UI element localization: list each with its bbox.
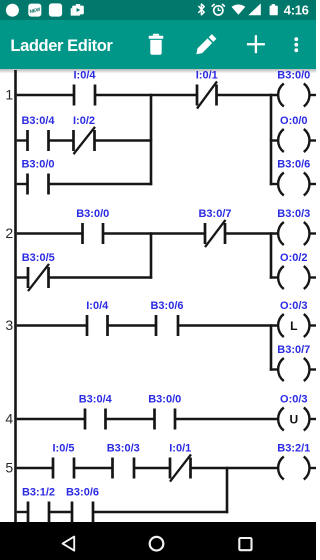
- svg-text:I:0/1: I:0/1: [169, 443, 191, 455]
- svg-text:5: 5: [5, 459, 13, 475]
- wire rung1 coil O:0/0 left lead: [270, 139, 278, 141]
- svg-text:B3:0/0: B3:0/0: [277, 70, 310, 82]
- left power rail: [14, 70, 17, 522]
- wire rung5: I:0/5 to B3:0/3: [74, 467, 113, 469]
- svg-text:B3:2/1: B3:2/1: [277, 443, 310, 455]
- contact B3:0/4 rung1 branch1: [21, 115, 55, 151]
- svg-text:B3:0/7: B3:0/7: [198, 208, 231, 220]
- contact B3:1/2 rung5 branch: [22, 487, 55, 523]
- app bar background: [0, 20, 316, 69]
- wire rung4: coil to right edge: [310, 418, 316, 420]
- wire rung1: coil to right edge: [310, 94, 316, 96]
- wire rung4: B3:0/0 to coil: [175, 418, 278, 420]
- contact B3:0/7 rung2 (NC): [198, 208, 231, 247]
- wire rung4: rail to B3:0/4: [17, 418, 85, 420]
- svg-text:B3:0/6: B3:0/6: [150, 300, 183, 312]
- coil B3:0/7 rung3: [277, 344, 310, 381]
- wire rung1: I:0/4 to I:0/1: [95, 94, 197, 96]
- wire rung1 branch1: B3:0/4 to I:0/2: [49, 139, 74, 141]
- coil O:0/2 rung2: [278, 252, 309, 289]
- svg-text:B3:0/4: B3:0/4: [79, 394, 113, 406]
- wire coil branch vertical rung1 (x=271): [270, 94, 273, 185]
- svg-text:O:0/0: O:0/0: [280, 115, 308, 127]
- contact B3:0/3 rung5: [107, 443, 140, 479]
- canvas background: [0, 74, 316, 523]
- svg-text:B3:0/5: B3:0/5: [22, 252, 55, 264]
- wire rung2 branch: B3:0/5 to junction: [49, 276, 153, 278]
- wire junction vertical rung5 (x=227): [226, 467, 229, 513]
- status bar notification icon: rounded square: [49, 3, 62, 16]
- wire junction vertical rung1 (x=151): [150, 94, 153, 185]
- status bar battery icon: [270, 4, 278, 15]
- app bar delete (trash) icon: [149, 34, 164, 55]
- navigation bar background: [0, 522, 316, 560]
- svg-text:B3:0/0: B3:0/0: [148, 394, 181, 406]
- wire rung1: I:0/1 to coil: [217, 94, 278, 96]
- svg-text:3: 3: [5, 317, 13, 333]
- wire rung3: rail to I:0/4: [17, 324, 87, 326]
- wire coil branch vertical rung2 (x=271): [270, 232, 273, 278]
- svg-text:B3:0/3: B3:0/3: [277, 208, 310, 220]
- wire coil branch vertical rung3 (x=271): [270, 324, 273, 370]
- wire rung5 branch: B3:0/6 to junction: [93, 511, 228, 513]
- contact I:0/4 rung3: [86, 300, 109, 336]
- svg-text:U: U: [289, 412, 298, 426]
- wire rung1 branch1: rail to B3:0/4: [17, 139, 28, 141]
- svg-text:B3:0/6: B3:0/6: [66, 487, 99, 499]
- contact I:0/2 rung1 branch1 (NC): [72, 115, 96, 154]
- svg-text:4: 4: [5, 410, 13, 426]
- status bar wifi icon: [232, 5, 246, 15]
- wire rung1 coil B3:0/6 right lead: [310, 183, 316, 185]
- wire rung2: coil to right edge: [310, 232, 316, 234]
- svg-text:I:0/4: I:0/4: [86, 300, 109, 312]
- coil O:0/0 rung1: [278, 115, 309, 152]
- status bar bluetooth icon: [199, 4, 204, 15]
- wire rung3 coil B3:0/7 right lead: [310, 368, 316, 370]
- wire rung3 coil B3:0/7 left lead: [270, 368, 278, 370]
- wire rung1 coil B3:0/6 left lead: [270, 183, 278, 185]
- contact B3:0/6 rung3: [150, 300, 183, 336]
- contact I:0/4 rung1: [73, 70, 97, 106]
- status bar background: [0, 0, 316, 20]
- status bar notification icon: filled circle: [6, 4, 19, 17]
- svg-text:O:0/3: O:0/3: [280, 300, 308, 312]
- contact I:0/5 rung5: [52, 443, 76, 479]
- wire rung2: B3:0/0 to B3:0/7: [103, 232, 205, 234]
- contact B3:0/5 rung2 branch (NC): [22, 252, 55, 291]
- app bar overflow (3-dot) menu icon: [294, 37, 298, 52]
- status bar alarm clock icon: [212, 4, 224, 15]
- nav bar home button: [150, 537, 164, 551]
- svg-text:I:0/2: I:0/2: [73, 115, 95, 127]
- svg-text:B3:0/6: B3:0/6: [277, 159, 310, 171]
- status bar notification icon: NEW badge: [28, 4, 41, 17]
- wire rung1 branch1: I:0/2 to junction: [95, 139, 153, 141]
- nav bar back button: [63, 537, 75, 551]
- app bar drop shadow: [0, 69, 316, 74]
- wire rung5: coil to right edge: [310, 467, 316, 469]
- svg-text:I:0/5: I:0/5: [52, 443, 74, 455]
- contact I:0/1 rung5 (NC): [169, 443, 192, 482]
- wire rung3: coil to right edge: [310, 324, 316, 326]
- nav bar recents button: [239, 538, 251, 550]
- svg-text:B3:1/2: B3:1/2: [22, 487, 55, 499]
- coil B3:0/6 rung1: [277, 159, 310, 196]
- wire rung2 coil O:0/2 left lead: [270, 276, 278, 278]
- svg-text:B3:0/0: B3:0/0: [76, 208, 109, 220]
- app bar edit (pencil) icon: [194, 34, 216, 56]
- coil O:0/3 latch rung3: [278, 300, 309, 337]
- wire rung3: I:0/4 to B3:0/6: [108, 324, 157, 326]
- wire rung2 branch: rail to B3:0/5: [17, 276, 28, 278]
- app bar add (plus) icon: [247, 35, 265, 53]
- svg-text:O:0/3: O:0/3: [280, 394, 308, 406]
- status bar cellular signal icon: [248, 3, 260, 15]
- wire rung2: rail to B3:0/0: [17, 232, 83, 234]
- svg-text:B3:0/7: B3:0/7: [277, 344, 310, 356]
- wire rung2: B3:0/7 to coil: [225, 232, 278, 234]
- wire rung3: B3:0/6 to coil: [178, 324, 278, 326]
- coil B3:2/1 rung5: [277, 443, 310, 480]
- svg-text:I:0/4: I:0/4: [73, 70, 96, 82]
- contact B3:0/6 rung5 branch: [66, 487, 99, 523]
- wire rung1 branch2: B3:0/0 to junction: [49, 183, 153, 185]
- svg-text:B3:0/4: B3:0/4: [21, 115, 55, 127]
- contact B3:0/0 rung4: [148, 394, 181, 430]
- coil B3:0/0 rung1: [277, 70, 310, 107]
- wire rung5: B3:0/3 to I:0/1: [134, 467, 170, 469]
- wire rung5: I:0/1 to coil: [191, 467, 278, 469]
- wire rung1 coil O:0/0 right lead: [310, 139, 316, 141]
- contact I:0/1 rung1 (NC): [196, 70, 218, 109]
- contact B3:0/0 rung1 branch2: [21, 159, 54, 195]
- svg-text:4:16: 4:16: [284, 2, 309, 17]
- svg-text:I:0/1: I:0/1: [196, 70, 218, 82]
- wire rung2 coil O:0/2 right lead: [310, 276, 316, 278]
- contact B3:0/4 rung4: [79, 394, 113, 430]
- wire rung1 branch2: rail to B3:0/0: [17, 183, 28, 185]
- coil B3:0/3 rung2: [277, 208, 310, 245]
- contact B3:0/0 rung2: [76, 208, 109, 244]
- wire junction vertical rung2 (x=151): [150, 232, 153, 278]
- wire rung5: rail to I:0/5: [17, 467, 53, 469]
- wire rung4: B3:0/4 to B3:0/0: [106, 418, 155, 420]
- wire rung5 branch: B3:1/2 to B3:0/6: [49, 511, 72, 513]
- svg-text:O:0/2: O:0/2: [280, 252, 308, 264]
- svg-text:1: 1: [5, 86, 13, 102]
- svg-text:B3:0/3: B3:0/3: [107, 443, 140, 455]
- svg-text:2: 2: [5, 225, 13, 241]
- wire rung5 branch: rail to B3:1/2: [17, 511, 28, 513]
- svg-text:B3:0/0: B3:0/0: [21, 159, 54, 171]
- status bar notification icon: screenshot/camera stack: [71, 4, 84, 16]
- svg-text:Ladder Editor: Ladder Editor: [10, 37, 113, 55]
- coil O:0/3 unlatch rung4: [278, 394, 309, 431]
- svg-text:L: L: [290, 319, 297, 333]
- wire rung1: rail to I:0/4: [17, 94, 74, 96]
